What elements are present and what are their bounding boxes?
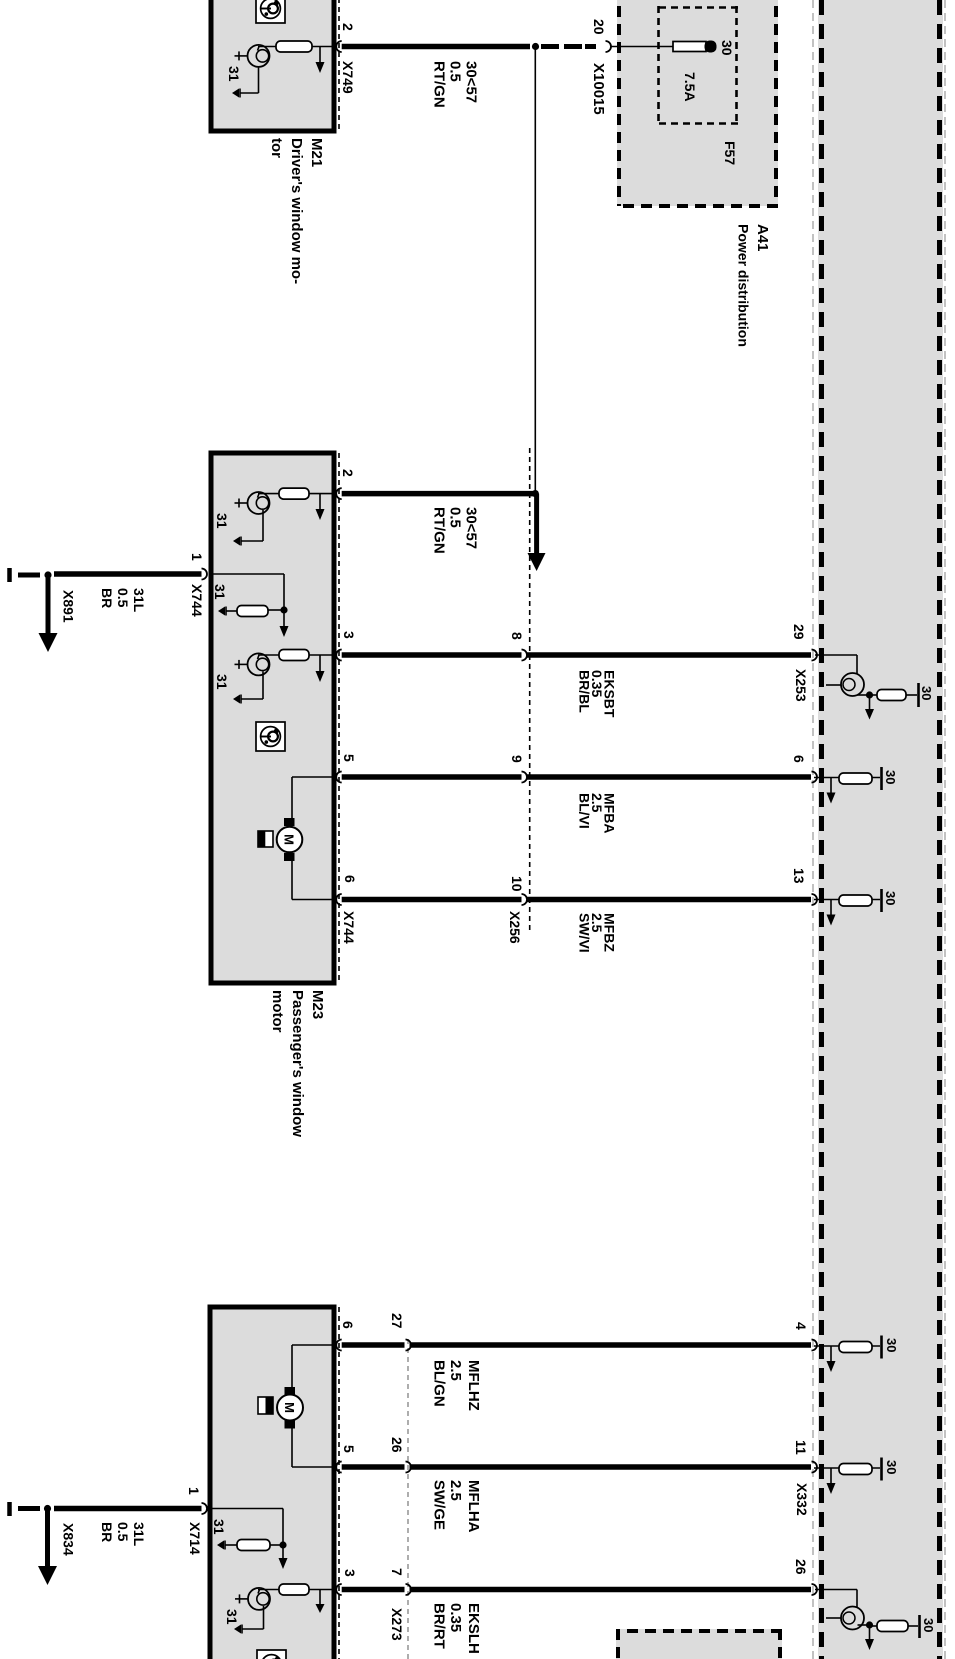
svg-text:Driver's window mo-: Driver's window mo- — [288, 138, 305, 284]
label 3 (M23) — [341, 631, 357, 639]
label 31 (M23 pin1 row) — [212, 584, 228, 600]
svg-text:10: 10 — [509, 876, 525, 892]
svg-text:3: 3 — [342, 1569, 358, 1577]
pin 6 of M23 — [336, 894, 342, 905]
current arrow at M21 pin 2 — [316, 47, 325, 74]
wire 30&lt;57 to M23 pin 2 — [342, 491, 536, 497]
branch wire to M23 pin 2 — [534, 47, 536, 494]
svg-text:2.5: 2.5 — [447, 1480, 464, 1501]
label X891 — [61, 590, 77, 623]
svg-text:RT/GN: RT/GN — [431, 507, 448, 554]
pin 7 of X273 — [406, 1584, 412, 1595]
current arrow at pin 29 circuit — [865, 695, 874, 720]
svg-text:tor: tor — [268, 138, 285, 158]
M22 window motor box — [210, 1307, 334, 1659]
pin 29 of module (X253) — [812, 650, 818, 661]
svg-text:SW/VI: SW/VI — [577, 913, 593, 953]
svg-text:30: 30 — [883, 891, 898, 905]
wire M22 pin3 to X273 pin7 — [342, 1587, 405, 1593]
pin 4 of module — [812, 1340, 818, 1351]
label Power distribution — [736, 224, 752, 347]
label 5 (M22) — [341, 1445, 357, 1453]
31 branch in M21 — [232, 67, 259, 98]
label RT/GN (top) — [431, 61, 448, 108]
label 31 (M23 pin3 row) — [214, 674, 230, 690]
label X10015 — [590, 63, 607, 115]
label 0.5 (M23) — [447, 507, 464, 528]
connector line X714 (dashed) — [338, 1307, 340, 1659]
svg-text:X253: X253 — [793, 669, 809, 702]
svg-text:0.5: 0.5 — [115, 588, 131, 608]
pin 27 of X273 — [406, 1340, 412, 1351]
svg-text:30: 30 — [884, 1460, 899, 1474]
position sensor box in M22 — [258, 1397, 273, 1414]
svg-text:0.35: 0.35 — [447, 1603, 464, 1632]
label SW/GE — [431, 1480, 448, 1530]
label BR/BL — [577, 670, 593, 713]
label 30 (pin 6) — [883, 770, 898, 784]
wire M22 pin6 to X273 pin27 — [342, 1342, 405, 1348]
resistor at M22 pin 3 — [258, 1584, 335, 1595]
A41 power distribution box — [617, 0, 778, 206]
resistor circuit at module pin 6 — [814, 767, 882, 804]
svg-text:BL/VI: BL/VI — [577, 793, 593, 829]
wire EKSBT (X256 pin8 to module pin29) — [527, 652, 811, 658]
svg-text:X744: X744 — [189, 584, 205, 617]
svg-text:M21: M21 — [308, 138, 325, 167]
svg-text:X714: X714 — [187, 1522, 203, 1555]
svg-text:30: 30 — [919, 686, 934, 700]
label 13 — [791, 868, 807, 884]
label MFBZ — [602, 913, 618, 952]
svg-text:2: 2 — [340, 23, 356, 31]
svg-text:4: 4 — [793, 1322, 809, 1330]
transistor at module pin 29 — [815, 655, 870, 696]
label 30 (pin 11) — [884, 1460, 899, 1474]
label 26 (X273) — [389, 1437, 405, 1453]
label 1 (M23) — [189, 553, 205, 561]
svg-text:31: 31 — [211, 1519, 227, 1535]
label X253 — [793, 669, 809, 702]
label 0.35 — [589, 670, 605, 697]
31 branch at M22 pin 3 — [234, 1606, 264, 1634]
label 2.5 (MFLHZ) — [447, 1360, 464, 1381]
fuse F57 box — [657, 6, 738, 125]
resistor circuit at module pin 11 — [814, 1458, 882, 1495]
label MFLHZ — [465, 1360, 482, 1411]
pin 9 of X256 — [522, 772, 528, 783]
svg-text:6: 6 — [342, 875, 358, 883]
svg-text:30: 30 — [883, 770, 898, 784]
wire MFBA segment (M23 pin5 to X256 pin9) — [342, 774, 522, 780]
svg-text:5: 5 — [341, 1445, 357, 1453]
pin 5 of M22 — [336, 1462, 342, 1473]
position sensor box in M23 — [258, 831, 273, 847]
label X714 — [187, 1522, 203, 1555]
label RT/GN (M23) — [431, 507, 448, 554]
label MFBA — [602, 793, 618, 833]
label 6 (M23) — [342, 875, 358, 883]
pin 2 of M21 (connector X749) — [336, 41, 342, 52]
svg-text:1: 1 — [186, 1487, 202, 1495]
label 7 — [389, 1568, 405, 1576]
svg-text:motor: motor — [269, 990, 286, 1033]
label 2 (M23 pin) — [340, 469, 356, 477]
pin 2 of M23 — [336, 488, 342, 499]
current arrow at M23 pin1 row — [280, 610, 289, 637]
wire MFBZ (X256 pin10 to module pin13) — [527, 897, 811, 903]
connector line X749 (dashed) — [338, 0, 340, 131]
resistor circuit at module pin 13 — [814, 889, 882, 926]
label EKSLH — [465, 1603, 482, 1654]
fan symbol in M22 (partial) — [257, 1650, 286, 1659]
label 2.5 (MFLHA) — [447, 1480, 464, 1501]
fan symbol in M21 — [256, 0, 285, 23]
pin 1 of M23 (connector X744) — [202, 569, 208, 580]
terminal 30 bar (pin 29) — [917, 683, 920, 707]
svg-text:31: 31 — [214, 674, 230, 690]
pin 6 of module — [812, 772, 818, 783]
pin 3 of M22 — [336, 1584, 342, 1595]
label 31 (M22 pin1 row) — [211, 1519, 227, 1535]
label X744 (pin1) — [189, 584, 205, 617]
svg-text:30: 30 — [719, 40, 735, 56]
label A41 — [754, 224, 771, 252]
ground wire 31L at X834 — [54, 1506, 202, 1512]
label 30 (pin 4) — [884, 1338, 899, 1352]
current arrow at M23 pin 2 — [316, 494, 325, 520]
arrow continuation (bold) at branch — [528, 494, 546, 571]
label SW/VI — [577, 913, 593, 953]
svg-text:0.5: 0.5 — [447, 507, 464, 528]
svg-text:6: 6 — [340, 1321, 356, 1329]
svg-text:X891: X891 — [61, 590, 77, 623]
label 30&lt;57 (M23) — [463, 507, 480, 549]
wire EKSBT segment (M23 pin3 to X256 pin8) — [342, 652, 522, 658]
label 31L (X834) — [131, 1522, 147, 1547]
svg-text:0.5: 0.5 — [447, 61, 464, 82]
svg-text:MFLHZ: MFLHZ — [465, 1360, 482, 1411]
label 8 — [509, 632, 525, 640]
junction dot at M23 pin1 row — [280, 606, 287, 613]
resistor at pin 29 circuit — [870, 690, 917, 701]
M21 driver's window motor box — [211, 0, 334, 131]
label X749 — [340, 61, 356, 94]
label 6 (module) — [791, 755, 807, 763]
svg-text:BL/GN: BL/GN — [431, 1360, 448, 1407]
junction dot on wire 30&lt;57 — [532, 43, 539, 50]
thermal breaker at M23 pin 3 — [235, 653, 270, 675]
connector rail line above band — [944, 0, 946, 1659]
label 7.5A — [682, 72, 698, 102]
svg-text:3: 3 — [341, 631, 357, 639]
svg-text:9: 9 — [509, 755, 525, 763]
thermal breaker at M23 pin 2 — [235, 492, 270, 514]
label X273 — [389, 1608, 405, 1641]
svg-text:X749: X749 — [340, 61, 356, 94]
pin 11 of module (X332) — [812, 1462, 818, 1473]
label MFLHA — [465, 1480, 482, 1533]
pin 1 of M22 (connector X714) — [202, 1503, 208, 1514]
svg-text:X256: X256 — [507, 911, 523, 944]
label 20 — [591, 19, 607, 35]
connector line X744 (dashed) — [338, 453, 340, 983]
wire 30&lt;57 0.5 RT/GN (M21 pin2 to fuse, bold with dash-dot) — [342, 44, 596, 49]
svg-text:BR: BR — [99, 588, 115, 608]
svg-text:Passenger's window: Passenger's window — [289, 990, 306, 1137]
label 30 (fuse terminal) — [719, 40, 735, 56]
internal circuit at M23 pin 1 — [210, 574, 284, 617]
pin 26 of module — [812, 1584, 818, 1595]
svg-text:31: 31 — [212, 584, 228, 600]
current arrow at M22 pin 3 — [316, 1590, 325, 1614]
label tor — [268, 138, 285, 158]
wire EKSLH (X273 pin7 to module pin26) — [410, 1587, 812, 1593]
label BR/RT — [431, 1603, 448, 1649]
wire M22 pin5 to X273 pin26 — [342, 1464, 405, 1470]
svg-text:F57: F57 — [722, 141, 738, 165]
label Passenger's window — [289, 990, 306, 1137]
thermal breaker in M21 — [235, 45, 270, 67]
current arrow at pin 26 circuit — [865, 1625, 874, 1650]
label 0.5 (top) — [447, 61, 464, 82]
chassis ground bar X834 — [7, 1502, 12, 1516]
label motor — [269, 990, 286, 1033]
svg-text:27: 27 — [389, 1313, 405, 1329]
label 29 — [791, 624, 807, 640]
label EKSBT — [602, 670, 618, 718]
label 30 (pin 26) — [921, 1618, 936, 1632]
dash-dot to chassis X891 — [18, 573, 40, 578]
connector X256 line (dashed) — [529, 448, 531, 930]
label M23 — [309, 990, 326, 1019]
svg-text:BR: BR — [99, 1522, 115, 1542]
ground arrow X834 — [38, 1509, 57, 1586]
resistor at pin 26 circuit — [870, 1621, 918, 1632]
M23 passenger's window motor box — [211, 453, 334, 983]
terminal 30 bar (pin 26) — [918, 1615, 921, 1638]
svg-text:30<57: 30<57 — [463, 61, 480, 103]
label 11 — [793, 1440, 809, 1455]
label 5 (M23) — [341, 754, 357, 762]
resistor at M23 pin 3 — [258, 650, 335, 661]
svg-text:SW/GE: SW/GE — [431, 1480, 448, 1530]
label BR (X891) — [99, 588, 115, 608]
internal circuit at M22 pin 1 — [210, 1509, 283, 1551]
svg-text:X744: X744 — [341, 911, 357, 944]
31 branch at M23 pin 3 — [233, 671, 263, 703]
resistor at M23 pin 2 — [258, 488, 335, 499]
wire MFBZ segment (M23 pin6 to X256 pin10) — [342, 897, 522, 903]
label 1 (M22) — [186, 1487, 202, 1495]
label Driver's window mo- — [288, 138, 305, 284]
label 10 — [509, 876, 525, 892]
svg-text:M: M — [282, 1402, 297, 1413]
svg-text:31: 31 — [226, 66, 242, 82]
svg-text:M: M — [282, 834, 297, 845]
31 branch at M23 pin 2 — [233, 510, 263, 546]
svg-text:2: 2 — [340, 469, 356, 477]
current arrow at M23 pin 3 — [316, 655, 325, 682]
svg-text:5: 5 — [341, 754, 357, 762]
svg-text:X273: X273 — [389, 1608, 405, 1641]
svg-text:31L: 31L — [131, 588, 147, 613]
label 0.35 (EKSLH) — [447, 1603, 464, 1632]
svg-text:BR/RT: BR/RT — [431, 1603, 448, 1649]
wire MFLHA (X273 pin26 to module pin11) — [410, 1464, 812, 1470]
svg-text:X10015: X10015 — [590, 63, 607, 115]
pin 6 of M22 — [336, 1340, 342, 1351]
label X744 (pin6) — [341, 911, 357, 944]
label BR (X834) — [99, 1522, 115, 1542]
label 3 (M22) — [342, 1569, 358, 1577]
svg-text:26: 26 — [793, 1559, 809, 1575]
svg-text:MFLHA: MFLHA — [465, 1480, 482, 1533]
label 27 — [389, 1313, 405, 1329]
svg-text:29: 29 — [791, 624, 807, 640]
svg-text:31: 31 — [214, 513, 230, 529]
label 4 — [793, 1322, 809, 1330]
svg-text:26: 26 — [389, 1437, 405, 1453]
svg-text:7: 7 — [389, 1568, 405, 1576]
label 0.5 (X834) — [115, 1522, 131, 1542]
svg-text:8: 8 — [509, 632, 525, 640]
svg-text:30<57: 30<57 — [463, 507, 480, 549]
label F57 — [722, 141, 738, 165]
transistor at module pin 26 — [815, 1590, 870, 1630]
svg-text:0.5: 0.5 — [115, 1522, 131, 1542]
chassis ground bar X891 — [7, 568, 12, 582]
junction dot X834 — [44, 1505, 51, 1512]
dash-dot to chassis X834 — [18, 1506, 40, 1511]
svg-text:7.5A: 7.5A — [682, 72, 698, 102]
connector X10015 pin 20 — [606, 41, 612, 52]
label BL/GN — [431, 1360, 448, 1407]
svg-text:1: 1 — [189, 553, 205, 561]
thermal breaker at M22 pin 3 — [235, 1588, 270, 1610]
svg-text:2.5: 2.5 — [447, 1360, 464, 1381]
junction dot at pin 29 circuit — [866, 691, 873, 698]
junction dot at pin 26 circuit — [866, 1621, 873, 1628]
motor M in M22 — [277, 1345, 335, 1467]
label BL/VI — [577, 793, 593, 829]
svg-text:BR/BL: BR/BL — [577, 670, 593, 713]
label X256 — [507, 911, 523, 944]
svg-text:A41: A41 — [754, 224, 771, 252]
label 31 (M22 pin3 row) — [224, 1609, 240, 1625]
svg-text:20: 20 — [591, 19, 607, 35]
svg-text:X834: X834 — [61, 1523, 77, 1556]
pin 10 of X256 — [522, 894, 528, 905]
label 30&lt;57 (top) — [463, 61, 480, 103]
svg-text:11: 11 — [793, 1440, 809, 1455]
svg-text:EKSLH: EKSLH — [465, 1603, 482, 1654]
label M21 — [308, 138, 325, 167]
svg-text:31: 31 — [224, 1609, 240, 1625]
label 26 (module) — [793, 1559, 809, 1575]
label 30 (pin 13) — [883, 891, 898, 905]
wire MFBA (X256 pin9 to module pin6) — [527, 774, 811, 780]
label 31 (M21) — [226, 66, 242, 82]
label 31 (M23 pin2 row) — [214, 513, 230, 529]
svg-text:6: 6 — [791, 755, 807, 763]
svg-text:30: 30 — [884, 1338, 899, 1352]
label X332 — [794, 1483, 810, 1516]
pin 5 of M23 — [336, 772, 342, 783]
svg-text:RT/GN: RT/GN — [431, 61, 448, 108]
label 6 (M22) — [340, 1321, 356, 1329]
svg-text:Power distribution: Power distribution — [736, 224, 752, 347]
svg-text:13: 13 — [791, 868, 807, 884]
label 30 (pin 29) — [919, 686, 934, 700]
fuse F57 symbol — [611, 41, 717, 53]
current arrow at M22 pin1 row — [279, 1545, 288, 1569]
pin 3 of M23 — [336, 650, 342, 661]
svg-text:30: 30 — [921, 1618, 936, 1632]
body control module (gray bus band, dashed border) — [818, 0, 943, 1659]
label 2.5 (MFBZ) — [589, 913, 605, 933]
connector X273 line (dashed gray) — [407, 1339, 409, 1659]
label X834 — [61, 1523, 77, 1556]
label 2.5 (MFBA) — [589, 793, 605, 813]
svg-text:31L: 31L — [131, 1522, 147, 1547]
label 2 (M21 pin) — [340, 23, 356, 31]
label 31L (X891) — [131, 588, 147, 613]
resistor circuit at module pin 4 — [814, 1336, 882, 1373]
svg-text:X332: X332 — [794, 1483, 810, 1516]
label 9 — [509, 755, 525, 763]
fan symbol in M23 — [256, 722, 285, 751]
svg-text:M23: M23 — [309, 990, 326, 1019]
motor M in M23 — [277, 777, 335, 900]
ground wire 31L at X891 — [54, 571, 202, 577]
pin 26 of X273 — [406, 1462, 412, 1473]
pin 8 of X256 — [522, 650, 528, 661]
pin 13 of module — [812, 894, 818, 905]
junction dot at M22 pin1 row — [279, 1541, 286, 1548]
wire MFLHZ (X273 pin27 to module pin4) — [410, 1342, 812, 1348]
resistor in M21 — [258, 41, 335, 52]
power distribution box (right, partial) — [616, 1629, 782, 1659]
junction dot X891 — [44, 571, 51, 578]
junction dot at M23 branch — [532, 490, 539, 497]
ground arrow X891 — [39, 575, 58, 652]
label 0.5 (X891) — [115, 588, 131, 608]
connector rail line X253/X332 below band — [812, 0, 814, 1659]
